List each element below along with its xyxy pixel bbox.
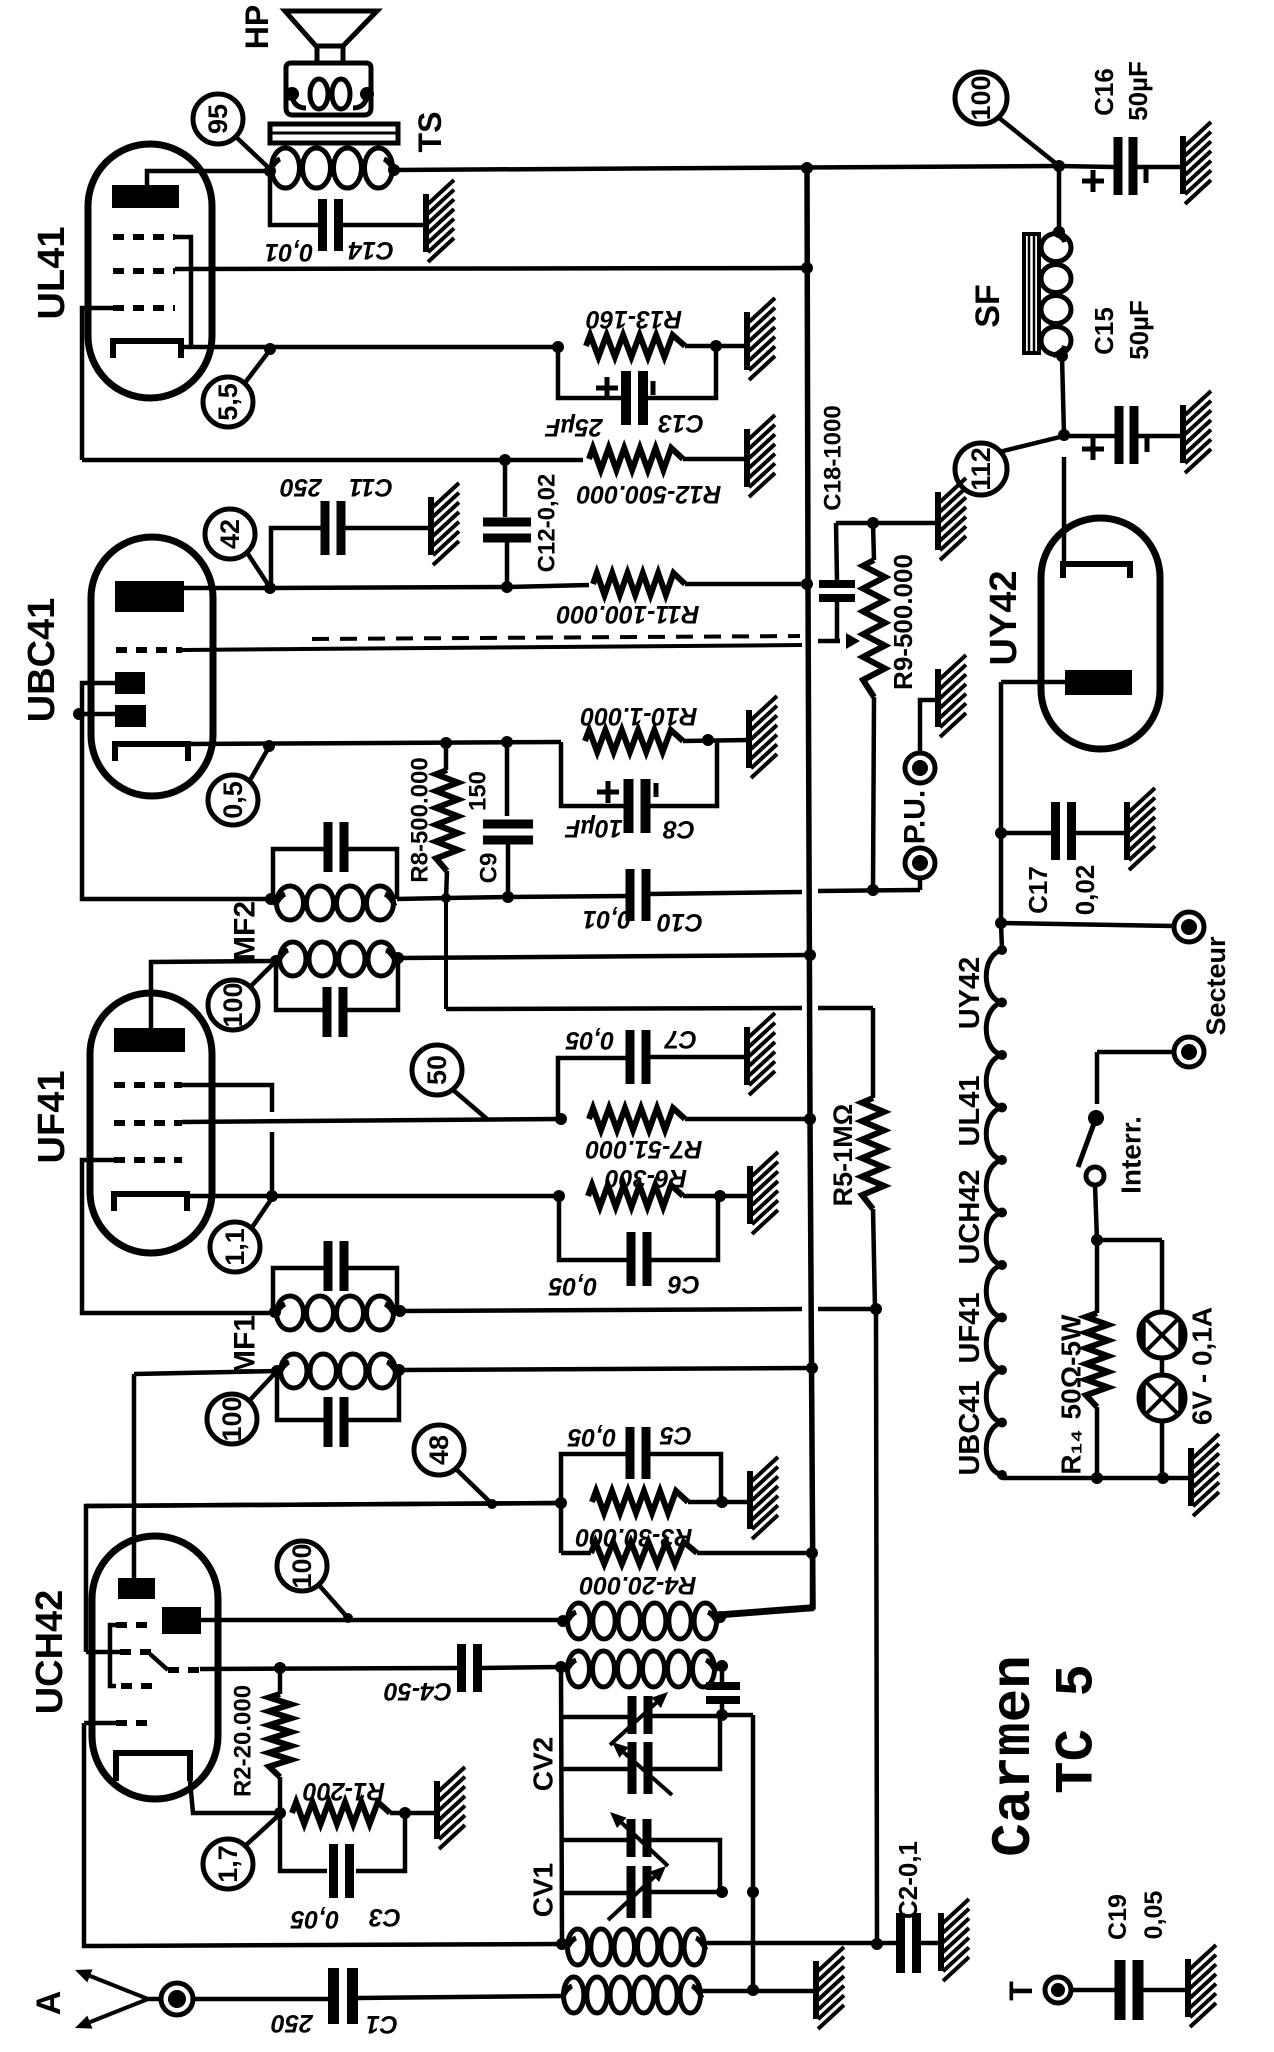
svg-text:0,5: 0,5 <box>218 781 248 819</box>
svg-text:0,02: 0,02 <box>1070 865 1100 916</box>
resistor R10 <box>585 730 749 752</box>
node CV2 top right <box>716 1709 728 1721</box>
label MF2 <box>229 901 262 961</box>
node AVC bottom <box>871 1938 883 1950</box>
svg-text:MF2: MF2 <box>229 901 262 961</box>
label PU <box>899 790 932 844</box>
label Interr <box>1116 1116 1147 1194</box>
variable capacitor CV2a <box>562 1692 722 1745</box>
svg-text:95: 95 <box>203 104 233 134</box>
svg-text:50µF: 50µF <box>1123 61 1153 121</box>
node C17 <box>995 827 1007 839</box>
node R4 rail <box>806 1547 818 1559</box>
node R6 right <box>714 1190 726 1202</box>
svg-text:250: 250 <box>271 2009 314 2037</box>
svg-text:R10-1.000: R10-1.000 <box>581 702 698 730</box>
label SF <box>969 284 1007 327</box>
node C9 top <box>501 736 513 748</box>
node UL41 cathode <box>264 343 276 355</box>
node MF2 sec left <box>265 893 277 905</box>
ground C11 <box>431 483 459 565</box>
svg-text:150: 150 <box>465 771 492 811</box>
svg-text:UCH42: UCH42 <box>954 1169 986 1264</box>
svg-text:100: 100 <box>218 982 248 1027</box>
svg-text:100: 100 <box>217 1396 247 1441</box>
AVC arrow into R9 <box>818 633 860 649</box>
wire heater bottom bus <box>1002 1475 1191 1478</box>
filter choke SF <box>1024 166 1071 362</box>
label C14 value <box>265 236 394 266</box>
tube UCH42 grid g4 <box>121 1683 153 1689</box>
resistor R12 <box>589 448 746 470</box>
label C16 <box>1089 61 1153 121</box>
node R13 left <box>552 341 564 353</box>
ground C2 <box>941 1899 969 1981</box>
terminal PU top <box>905 700 938 783</box>
tube UY42 anode <box>1001 670 1132 695</box>
svg-text:0,05: 0,05 <box>1140 1891 1168 1940</box>
ground C19 <box>1188 1945 1216 2027</box>
label UF41 <box>31 1071 73 1164</box>
capacitor C4 <box>457 1644 560 1692</box>
svg-text:R8-500.000: R8-500.000 <box>407 757 434 882</box>
svg-text:C14: C14 <box>348 236 394 264</box>
transformer TS primary coil <box>270 148 394 188</box>
capacitor C2 <box>896 1913 941 1973</box>
tube UY42 envelope <box>1041 518 1160 749</box>
svg-text:48: 48 <box>424 1435 454 1465</box>
circled 95 <box>193 94 270 169</box>
svg-text:TC 5: TC 5 <box>1048 1664 1109 1794</box>
wire top bus to C16 <box>394 166 1059 170</box>
label T <box>1003 1981 1039 2001</box>
svg-text:UY42: UY42 <box>954 957 986 1030</box>
label C4 <box>384 1677 452 1705</box>
osc trimmer cap <box>706 1666 740 1715</box>
node R9 top <box>867 517 879 529</box>
svg-text:0,01: 0,01 <box>583 905 632 933</box>
ground antenna <box>816 1947 844 2029</box>
svg-text:C16: C16 <box>1089 68 1119 116</box>
node mains junction <box>995 917 1007 929</box>
resistor R2 <box>269 1668 291 1813</box>
label C5 <box>567 1421 692 1451</box>
tube UBC41 grid <box>116 647 182 653</box>
node MF1 sec left <box>271 1365 283 1377</box>
node R6 left <box>553 1190 565 1202</box>
svg-text:R5-1MΩ: R5-1MΩ <box>828 1104 858 1207</box>
AVC dashed line <box>182 636 802 650</box>
node rail top <box>801 162 813 174</box>
svg-text:250: 250 <box>280 473 323 501</box>
tube UF41 cathode <box>114 1194 559 1211</box>
node MF1 rail <box>806 1362 818 1374</box>
wire CV2 to ground bus <box>722 1715 753 1990</box>
ground R10 <box>749 696 777 778</box>
node R8 top <box>440 737 452 749</box>
antenna terminal A <box>75 1969 193 2028</box>
node MF1 sec right <box>393 1364 405 1376</box>
svg-text:C17: C17 <box>1023 866 1053 914</box>
tube UF41 anode <box>114 961 276 1052</box>
node R5 bottom <box>870 1303 882 1315</box>
resistor R1 <box>292 1802 437 1824</box>
label CV1 <box>528 1863 559 1917</box>
node CV1 ground bus <box>747 1886 759 1898</box>
ground C14 <box>426 180 454 262</box>
tube UL41 grid g2 <box>113 268 807 271</box>
node R9 bottom <box>867 884 879 896</box>
label C3 <box>290 1903 401 1933</box>
wire C10 to R9 bottom <box>818 890 920 891</box>
capacitor C3 <box>280 1813 405 1898</box>
label Secteur <box>1201 936 1231 1036</box>
label C18 <box>820 405 847 510</box>
ground R1 <box>437 1767 465 1849</box>
tube UCH42 heptode anode <box>162 1607 563 1634</box>
node osc coil left <box>557 1615 569 1627</box>
svg-text:TS: TS <box>412 112 448 153</box>
label R11 <box>557 600 700 628</box>
antenna coupling coil <box>562 1977 702 2013</box>
svg-text:100: 100 <box>966 75 996 120</box>
label C10 <box>583 905 703 936</box>
resistor R4 <box>561 1503 812 1564</box>
svg-text:Secteur: Secteur <box>1201 936 1231 1036</box>
label TS <box>412 112 448 153</box>
svg-text:6V - 0,1A: 6V - 0,1A <box>1187 1307 1218 1425</box>
ground PU <box>938 655 966 737</box>
wire ant coil to ground <box>702 1989 816 1994</box>
capacitor C12 <box>483 460 531 586</box>
node tank right <box>716 1660 728 1672</box>
node R3 left <box>555 1497 567 1509</box>
tube UCH42 grid g1t <box>86 1503 561 1652</box>
label C12 <box>534 474 561 573</box>
node g2-rail <box>801 262 813 274</box>
svg-text:C9: C9 <box>476 853 503 884</box>
circled 50 <box>412 1045 487 1119</box>
wire MF1 sec to R5 <box>400 1309 876 1311</box>
circled 5,5 <box>203 350 270 427</box>
ground R13 <box>747 298 775 380</box>
circled 100 MF1 <box>207 1371 277 1444</box>
resistor R7 <box>589 1108 810 1130</box>
node MF1 pri left <box>269 1306 281 1318</box>
node C16 junction <box>1053 160 1065 172</box>
wire AVC vertical <box>876 1309 877 1944</box>
svg-text:R12-500.000: R12-500.000 <box>577 480 722 508</box>
wire R9 top <box>836 521 938 526</box>
svg-text:0,05: 0,05 <box>565 1026 615 1054</box>
MF2 secondary box <box>273 822 397 920</box>
label R12 <box>577 480 722 508</box>
tube UCH42 grid g3 <box>150 1654 459 1670</box>
node R7 left <box>555 1113 567 1125</box>
label C1 <box>271 2009 398 2038</box>
node R14 bottom <box>1091 1472 1103 1484</box>
ground C16 <box>1183 122 1211 204</box>
ground C17 <box>1127 788 1155 870</box>
node R2 bottom <box>274 1807 286 1819</box>
node C9 bottom <box>502 891 514 903</box>
svg-text:Carmen: Carmen <box>982 1655 1046 1857</box>
circled 100 MF2 <box>208 961 276 1030</box>
wire MF1 to triode <box>134 1371 277 1578</box>
svg-text:42: 42 <box>215 519 245 549</box>
label lamps <box>1187 1307 1218 1425</box>
svg-text:MF1: MF1 <box>229 1315 262 1375</box>
node MF2 sec right <box>397 898 446 899</box>
circled 0,5 <box>208 747 269 825</box>
svg-text:50µF: 50µF <box>1124 300 1154 360</box>
terminal T <box>1045 1977 1115 2003</box>
circled 1,1 <box>210 1198 272 1272</box>
node R11 rail <box>801 578 813 590</box>
wire ant tank to C2 <box>706 1941 898 1946</box>
capacitor C14 <box>270 171 426 251</box>
svg-text:R1-200: R1-200 <box>303 1777 385 1805</box>
node UBC41 anode <box>264 582 276 594</box>
svg-text:0,01: 0,01 <box>265 238 314 266</box>
wire detector to R5 <box>446 1008 873 1098</box>
wire R8 down <box>444 898 448 1009</box>
node MF2 rail <box>804 949 816 961</box>
node TS left <box>264 165 276 177</box>
tube UL41 grid g3 <box>113 237 191 345</box>
svg-text:112: 112 <box>966 447 996 491</box>
label R8 <box>407 757 434 882</box>
ground heater <box>1191 1434 1219 1516</box>
label UCH42 <box>29 1590 71 1715</box>
capacitor C16 <box>1059 137 1183 195</box>
label R9 <box>888 554 918 690</box>
osc anode coil <box>566 1603 718 1639</box>
circled 100 HT <box>955 72 1059 166</box>
label R3 <box>576 1523 693 1551</box>
antenna tank coil <box>566 1929 706 1965</box>
capacitor C17 <box>1001 802 1127 860</box>
svg-text:UCH42: UCH42 <box>29 1590 71 1715</box>
node TS right <box>388 164 400 176</box>
svg-text:CV1: CV1 <box>528 1863 559 1917</box>
label C17 <box>1023 865 1100 916</box>
label MF1 <box>229 1315 262 1375</box>
svg-text:C19: C19 <box>1104 1894 1132 1940</box>
wire SF to C15 <box>1062 356 1064 435</box>
label heater UL41 <box>954 1076 986 1147</box>
svg-text:A: A <box>30 1991 68 2016</box>
svg-text:C15: C15 <box>1089 307 1119 355</box>
node R10 right <box>702 734 714 746</box>
resistor R14 <box>1086 1240 1108 1478</box>
circled 100 UCH42 <box>277 1541 348 1618</box>
ground C15 <box>1183 391 1211 473</box>
label R13 <box>586 305 682 333</box>
label C7 <box>565 1025 697 1054</box>
capacitor C18 <box>819 523 855 641</box>
ground R9 top <box>938 478 966 560</box>
circled 48 <box>414 1425 492 1504</box>
svg-text:UL41: UL41 <box>954 1076 986 1147</box>
label UY42 <box>983 570 1025 665</box>
label UL41 <box>31 227 73 320</box>
node C12 top <box>499 454 511 466</box>
wire MF2 pri to rail <box>398 955 810 958</box>
terminal Secteur 1 <box>1174 912 1204 942</box>
resistor R6 <box>588 1185 750 1207</box>
label C11 <box>280 473 393 501</box>
svg-text:R7-51.000: R7-51.000 <box>586 1135 703 1163</box>
node R3 right <box>716 1496 728 1508</box>
label C19 <box>1104 1891 1168 1940</box>
output transformer TS laminations <box>270 124 398 143</box>
svg-text:C10: C10 <box>657 908 703 936</box>
potentiometer R9 <box>863 523 885 890</box>
tube UCH42 envelope <box>92 1536 218 1799</box>
node UBC41 cathode <box>263 740 275 752</box>
tube UL41 anode <box>112 171 268 208</box>
node MF1 pri right <box>394 1305 406 1317</box>
resistor R11 <box>507 573 807 595</box>
capacitor C9 <box>483 742 533 897</box>
variable capacitor CV2b <box>562 1717 720 1795</box>
node C15 junction <box>1058 429 1070 441</box>
label C9 <box>465 771 503 883</box>
svg-text:CV2: CV2 <box>528 1737 559 1791</box>
loudspeaker HP <box>285 11 377 115</box>
node g3 junction <box>274 1662 286 1674</box>
label R2 <box>230 1685 257 1797</box>
svg-text:R9-500.000: R9-500.000 <box>888 554 918 690</box>
label R1 <box>303 1777 385 1805</box>
title Carmen <box>982 1655 1046 1857</box>
circled 112 <box>955 436 1064 495</box>
MF2 primary box <box>276 942 398 1037</box>
node ant coil ground bus <box>747 1984 759 1996</box>
wire diodes to MF2 <box>82 714 271 899</box>
node CV1 bottom right <box>716 1886 728 1898</box>
svg-text:1,1: 1,1 <box>220 1228 250 1266</box>
svg-text:0,05: 0,05 <box>548 1272 598 1300</box>
label heater UBC41 <box>954 1380 986 1475</box>
heater chain <box>986 945 1007 1480</box>
label CV2 <box>528 1737 559 1791</box>
svg-text:UF41: UF41 <box>954 1293 986 1364</box>
svg-text:HP: HP <box>239 5 275 49</box>
label C13 <box>545 409 704 441</box>
svg-text:C4-50: C4-50 <box>384 1677 452 1705</box>
svg-text:C12-0,02: C12-0,02 <box>534 474 561 573</box>
wire left bus <box>561 1667 562 1944</box>
svg-text:R13-160: R13-160 <box>586 305 682 333</box>
label R4 <box>580 1571 697 1599</box>
resistor R8 <box>436 743 458 898</box>
ground R3 <box>750 1457 778 1539</box>
svg-text:C3: C3 <box>369 1903 401 1931</box>
svg-text:R4-20.000: R4-20.000 <box>580 1571 697 1599</box>
svg-text:C5: C5 <box>659 1421 692 1449</box>
lamp 2 <box>1139 1375 1185 1421</box>
wire osc coil to rail <box>720 1553 812 1616</box>
label heater UF41 <box>954 1293 986 1364</box>
node R7 rail <box>804 1113 816 1125</box>
svg-text:C2-0,1: C2-0,1 <box>893 1841 923 1919</box>
circled 1,7 <box>203 1814 280 1889</box>
wire B+ rail <box>722 168 813 1614</box>
node ant tank left <box>556 1938 568 1950</box>
resistor R13 <box>586 335 747 357</box>
label R10 <box>581 702 698 730</box>
svg-text:UBC41: UBC41 <box>954 1380 986 1475</box>
capacitor C13 electrolytic <box>558 346 716 425</box>
svg-text:50Ω-5W: 50Ω-5W <box>1056 1314 1087 1419</box>
tube UF41 envelope <box>90 993 212 1253</box>
node R13 right <box>710 340 722 352</box>
label heater UCH42 <box>954 1169 986 1264</box>
node switch R14 <box>1091 1234 1103 1246</box>
svg-text:R₁₄: R₁₄ <box>1056 1429 1087 1474</box>
wire MF1 sec to rail <box>399 1368 812 1370</box>
label C2 <box>893 1841 923 1919</box>
svg-text:C11: C11 <box>349 473 393 501</box>
node R8 bottom <box>441 893 451 903</box>
svg-text:1,7: 1,7 <box>213 1845 243 1883</box>
svg-text:Interr.: Interr. <box>1116 1116 1147 1194</box>
label R6 <box>605 1164 687 1192</box>
ground R12 <box>747 415 775 497</box>
capacitor C11 <box>271 501 431 587</box>
svg-text:R11-100.000: R11-100.000 <box>557 600 700 628</box>
svg-text:C18-1000: C18-1000 <box>820 405 847 510</box>
svg-text:25µF: 25µF <box>545 413 604 441</box>
tube UCH42 triode anode <box>118 1578 155 1599</box>
wire 48V line <box>86 1503 561 1506</box>
node diode junction <box>73 708 85 720</box>
resistor R5 <box>862 1098 884 1309</box>
tube UCH42 grid g5 <box>84 1723 562 1946</box>
capacitor C19 <box>1115 1960 1189 2020</box>
svg-text:T: T <box>1003 1981 1039 2001</box>
tube UL41 grid g1 <box>82 308 175 460</box>
svg-text:100: 100 <box>287 1543 317 1588</box>
wire to Secteur 1 <box>1001 923 1174 926</box>
switch Interr <box>1078 1110 1104 1240</box>
svg-text:5,5: 5,5 <box>213 383 243 421</box>
node lamps bottom <box>1157 1472 1169 1484</box>
svg-text:R2-20.000: R2-20.000 <box>230 1685 257 1797</box>
wire heater chain top <box>1001 923 1002 950</box>
node tank left <box>555 1661 567 1673</box>
svg-text:P.U.: P.U. <box>899 790 932 844</box>
svg-text:UY42: UY42 <box>983 570 1025 665</box>
svg-text:UBC41: UBC41 <box>21 598 63 723</box>
svg-text:SF: SF <box>969 284 1007 327</box>
MF1 primary box <box>273 1241 397 1330</box>
capacitor C1 <box>193 1968 562 2024</box>
svg-text:0,05: 0,05 <box>567 1423 617 1451</box>
svg-text:C13: C13 <box>658 409 704 437</box>
osc tank coil <box>566 1651 716 1687</box>
capacitor C10 <box>626 869 803 921</box>
svg-text:C7: C7 <box>664 1025 697 1053</box>
label C8 <box>565 814 695 843</box>
tube UL41 envelope <box>88 144 212 398</box>
MF1 secondary box <box>277 1354 399 1447</box>
label R7 <box>586 1135 703 1163</box>
wire to lamps <box>1097 1240 1162 1312</box>
svg-text:50: 50 <box>422 1055 452 1085</box>
